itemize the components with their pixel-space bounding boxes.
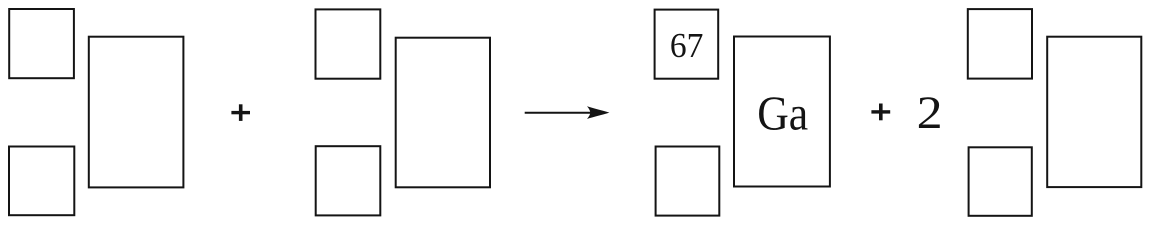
product 2: element-symbol blank box [1047,37,1141,187]
reactant 2: mass-number blank box [316,9,381,78]
reaction arrow shaft [525,112,592,114]
product 2: atomic-number blank box [969,147,1032,216]
svg-text:67: 67 [670,26,704,65]
reactant 2: element-symbol blank box [396,38,490,188]
product: atomic-number blank box [656,147,720,216]
svg-text:Ga: Ga [757,85,808,140]
plus sign 2 [871,104,890,121]
reactant 1: element-symbol blank box [89,37,184,188]
product: mass-number box [655,10,719,79]
reactant 1: mass-number blank box [9,9,74,78]
product 2: mass-number blank box [968,9,1032,79]
product: element-symbol box [734,37,830,187]
svg-text:2: 2 [917,87,943,139]
reactant 2: atomic-number blank box [316,146,381,215]
reaction arrow head [587,106,609,119]
reactant 1: atomic-number blank box [9,147,74,216]
plus sign 1 [231,104,250,121]
